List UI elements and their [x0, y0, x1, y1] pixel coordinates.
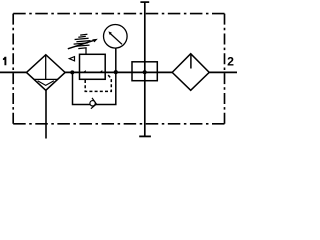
junction node B (gauge tap)	[114, 70, 118, 74]
regulator R1 spring coil stroke 5	[76, 45, 90, 46]
relief loop wire right	[95, 72, 116, 104]
filter F1 body (diamond)	[27, 55, 66, 91]
regulator R1 spring coil stroke 2	[75, 38, 89, 39]
regulator R1 flow tick 2	[99, 70, 102, 72]
enclosure boundary right (dash-dot)	[224, 14, 226, 124]
branch line top end bar	[140, 1, 149, 3]
filter F1 separator funnel	[38, 81, 54, 86]
regulator R1 spring coil stroke 3	[76, 41, 90, 42]
pressure gauge G1 dial	[104, 25, 128, 49]
regulator R1 relief vent triangle	[69, 57, 74, 61]
relief loop wire left	[73, 72, 91, 104]
regulator R1 spring coil stroke 0	[80, 33, 87, 36]
check valve V1 ball	[90, 101, 95, 106]
wire main line inlet	[0, 71, 27, 73]
enclosure boundary top (dash-dot)	[13, 13, 224, 15]
junction node C (branch block)	[143, 70, 147, 74]
pressure gauge G1 stem	[115, 48, 117, 72]
filter F1 drain line	[45, 90, 47, 138]
regulator R1 spring coil stroke 4	[74, 43, 88, 44]
regulator R1 spring stem	[85, 48, 87, 54]
port 1 label	[3, 57, 6, 66]
pilot line (dashed)	[85, 74, 111, 91]
gauge needle arrowhead	[108, 31, 111, 35]
regulator R1 spring coil stroke 6	[78, 47, 86, 50]
enclosure boundary left (dash-dot)	[12, 14, 14, 124]
junction node A (filter outlet)	[70, 70, 74, 74]
regulator R1 adjustment arrow	[68, 40, 95, 49]
check valve V1 seat	[91, 98, 97, 109]
regulator R1 flow tick 1	[83, 70, 86, 72]
regulator R1 arrow head	[92, 39, 98, 43]
pressure gauge G1 needle	[109, 33, 122, 45]
wire main line middle	[65, 71, 172, 73]
lubricator L1 drip line	[190, 54, 192, 69]
regulator R1 body	[80, 54, 106, 79]
branch line bottom end bar	[139, 135, 151, 137]
enclosure boundary bottom (dash-dot)	[13, 123, 224, 125]
regulator R1 spring coil stroke 1	[78, 35, 86, 38]
lubricator L1 body (diamond)	[172, 54, 209, 91]
filter F1 element line	[45, 55, 47, 80]
branch line vertical	[144, 2, 146, 136]
svg-text:2: 2	[227, 54, 234, 68]
wire main line outlet	[209, 71, 237, 73]
branch block body	[132, 62, 157, 81]
filter F1 separator chord	[34, 78, 58, 80]
